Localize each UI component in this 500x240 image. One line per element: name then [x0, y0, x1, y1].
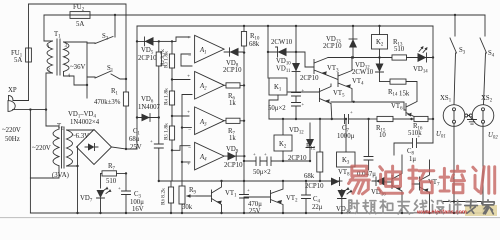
capacitor C9 0.047μ: [364, 119, 373, 170]
diode VD11: [276, 25, 319, 93]
LED VD14: [413, 46, 433, 75]
svg-text:1000μ: 1000μ: [337, 133, 355, 140]
op-amp A2: [187, 72, 224, 100]
bridge rectifier VD1-VD4: [68, 111, 112, 165]
svg-text:5A: 5A: [76, 21, 84, 28]
resistor R5: [169, 126, 174, 140]
wire K2 bottom node: [283, 160, 310, 162]
svg-text:1N4007: 1N4007: [138, 104, 161, 111]
capacitors C4 C5 50μ×2: [268, 89, 305, 119]
svg-text:+: +: [302, 103, 305, 108]
wire VT3 emitter to VT4 base: [328, 76, 338, 80]
svg-text:2CP10: 2CP10: [138, 55, 157, 62]
svg-text:68k: 68k: [304, 173, 315, 180]
resistor R7: [102, 171, 117, 176]
capacitor C2: [240, 195, 249, 199]
diode VD12a: [288, 123, 314, 162]
transistor VT1: [196, 181, 237, 214]
svg-text:−: −: [188, 93, 191, 99]
T2 primary winding: [53, 129, 59, 166]
diode VD17: [371, 177, 386, 198]
capacitor C1: [154, 118, 163, 182]
watermark gray characters: [348, 200, 461, 214]
resistor R4: [169, 91, 174, 105]
svg-text:~220V: ~220V: [2, 127, 21, 134]
wire A2 + input: [172, 79, 190, 81]
svg-text:R3 1.8k: R3 1.8k: [164, 51, 170, 68]
wire bridge + output: [112, 147, 127, 149]
resistor R8: [170, 181, 172, 187]
T2 core: [62, 127, 65, 168]
T1 primary winding: [47, 41, 53, 73]
svg-text:2CW10: 2CW10: [352, 69, 374, 76]
fuse FU2: [70, 12, 90, 19]
svg-text:68k: 68k: [249, 41, 260, 48]
svg-text:2CP10: 2CP10: [223, 67, 242, 74]
svg-text:2CP10: 2CP10: [323, 43, 342, 50]
wire left column to FU1 and plug: [28, 4, 30, 101]
resistor R12: [319, 119, 321, 152]
capacitors C6a 50μ×2: [244, 153, 283, 176]
zener VD10 2CW10: [268, 39, 296, 67]
resistor R16: [414, 116, 428, 121]
svg-text:50μ×2: 50μ×2: [253, 169, 271, 176]
watermark red characters: [349, 166, 495, 194]
wire A4 + input: [182, 161, 190, 163]
resistor R1: [123, 92, 128, 106]
svg-text:+: +: [187, 74, 190, 80]
diode VD9: [224, 146, 246, 169]
resistor R2: [158, 41, 160, 52]
wire zener node to VT3 base: [296, 52, 314, 67]
transistor VT2: [244, 180, 298, 214]
node S-block left column: [86, 42, 88, 98]
transistor VT7: [384, 155, 403, 214]
wire VT5 emitter to C7 node: [330, 104, 333, 120]
T1 core: [57, 39, 60, 75]
svg-text:100μ: 100μ: [130, 199, 144, 206]
wire inner box right edge: [432, 26, 434, 143]
socket XS2: [472, 95, 498, 213]
svg-text:1k: 1k: [229, 135, 236, 142]
wire K1 column x268: [267, 26, 269, 78]
svg-text:1N4002×4: 1N4002×4: [70, 119, 100, 126]
op-amp A3: [187, 107, 224, 135]
svg-text:−: −: [188, 128, 191, 134]
wire K2 feed y119: [269, 118, 346, 120]
svg-text:68μ: 68μ: [129, 136, 140, 143]
svg-text:R4 1.8k: R4 1.8k: [164, 88, 170, 105]
svg-text:2CP10: 2CP10: [300, 75, 319, 82]
watermark yellow highlight: [465, 205, 497, 216]
svg-text:50Hz: 50Hz: [5, 136, 20, 143]
relay K4: [337, 152, 356, 167]
svg-text:+: +: [264, 153, 267, 158]
svg-text:1μ: 1μ: [409, 156, 416, 163]
diode VD5: [136, 37, 160, 62]
svg-text:510: 510: [394, 46, 405, 53]
capacitor C7 1000μ: [332, 111, 369, 140]
wire inner box left edge: [136, 26, 138, 149]
capacitor C4b 22μ: [302, 181, 311, 213]
svg-text:10: 10: [379, 132, 386, 139]
svg-text:+: +: [187, 35, 190, 41]
fuse FU1: [26, 48, 32, 62]
svg-text:+: +: [187, 162, 190, 168]
capacitor C8 1μ: [394, 135, 433, 163]
plug XP: [8, 95, 46, 111]
svg-text:+: +: [247, 189, 250, 194]
svg-text:5A: 5A: [14, 57, 22, 64]
svg-text:~36V: ~36V: [70, 64, 85, 71]
op-amp A4: [187, 142, 224, 170]
transformer T1: [44, 31, 87, 126]
diode VD13: [323, 25, 357, 59]
transformer T2: [30, 123, 94, 179]
svg-text:16V: 16V: [132, 206, 144, 213]
svg-text:2CW10: 2CW10: [271, 39, 293, 46]
svg-text:R8 8.2k: R8 8.2k: [161, 188, 167, 205]
resistor R13: [391, 57, 393, 59]
wire summing bus x244: [243, 53, 245, 213]
svg-text:30k: 30k: [182, 204, 193, 211]
LED VD7: [80, 187, 112, 214]
watermark dark characters: [465, 200, 494, 214]
transistor VT4: [338, 56, 364, 102]
zener VD12 2CW10: [352, 58, 384, 82]
socket XS1: [436, 95, 465, 213]
svg-text:+: +: [350, 111, 353, 116]
T1 secondary winding: [64, 42, 70, 72]
wire A1 inverting feedback loop: [181, 54, 192, 66]
diode VD8: [223, 48, 245, 74]
svg-text:2CP10: 2CP10: [224, 162, 243, 169]
svg-text:470μ: 470μ: [248, 201, 262, 208]
wire node to A1 + input: [172, 37, 190, 41]
wire bottom distribution y181: [159, 180, 330, 182]
svg-text:XP: XP: [8, 87, 17, 94]
resistor R10: [243, 26, 245, 32]
resistor R15: [369, 118, 377, 120]
resistor R6: [224, 84, 226, 86]
svg-text:25V: 25V: [249, 208, 261, 215]
potentiometer R9: [181, 162, 183, 186]
ground between sockets: [465, 114, 468, 117]
svg-text:2CP10: 2CP10: [305, 183, 324, 190]
diode VD15: [330, 178, 353, 215]
svg-text:+: +: [150, 140, 153, 145]
switch S3: [450, 15, 457, 105]
relay K1: [269, 78, 287, 95]
svg-text:25V: 25V: [130, 144, 142, 151]
resistor R3: [171, 41, 173, 54]
wire inner box top rail y26: [137, 25, 433, 27]
resistor R14: [380, 81, 391, 83]
resistor R7b: [224, 120, 226, 122]
svg-text:−: −: [188, 145, 191, 151]
diode VD6: [136, 96, 161, 121]
transistor VT3: [314, 58, 339, 76]
svg-text:+: +: [302, 89, 305, 94]
transistor VT6: [391, 102, 417, 120]
transistor VT5: [288, 84, 345, 104]
wire lower link between socket columns: [442, 201, 483, 203]
switch S2: [87, 15, 115, 44]
svg-text:22μ: 22μ: [312, 204, 323, 211]
T2 secondary winding: [67, 130, 73, 166]
capacitor C3: [122, 173, 131, 213]
svg-text:1k: 1k: [229, 100, 236, 107]
node neutral junction: [29, 108, 31, 110]
wire rail2 drop to T1 primary: [43, 15, 45, 41]
wire 36V column x126: [126, 15, 137, 149]
LED VD16: [338, 190, 347, 199]
svg-text:~220V: ~220V: [32, 145, 51, 152]
wire neutral column to bottom rail: [29, 110, 31, 213]
svg-text:(3VA): (3VA): [52, 172, 69, 179]
wire A3 + input: [172, 115, 189, 117]
wire top-left outer rail: [29, 4, 127, 15]
wire VT3 collector to y57 rail: [328, 57, 433, 59]
wire bridge return column: [77, 147, 79, 213]
transistor VT8b: [412, 160, 440, 214]
svg-text:+: +: [418, 135, 421, 140]
relay K3: [372, 35, 388, 50]
wire bottom rail: [30, 212, 482, 214]
svg-text:510: 510: [106, 178, 117, 185]
relay K2: [282, 119, 284, 135]
wire VD5 node to R3 column: [159, 40, 172, 42]
switch S4: [480, 15, 487, 105]
wire A2 inverting input column: [182, 95, 192, 163]
wire emitter rail y102: [331, 102, 406, 110]
svg-text:470k±3%: 470k±3%: [94, 99, 121, 106]
svg-text:+: +: [118, 187, 121, 192]
watermark underline: [0, 217, 500, 219]
svg-text:+: +: [187, 110, 190, 116]
op-amp A1: [187, 35, 224, 63]
wire A4 - input: [172, 146, 190, 151]
svg-text:50μ×2: 50μ×2: [268, 105, 286, 112]
svg-text:www.elecfans.com: www.elecfans.com: [416, 210, 467, 216]
svg-text:R5 1.8k: R5 1.8k: [164, 123, 170, 140]
switch S1: [87, 71, 126, 79]
wire rail2 after FU2: [44, 14, 485, 16]
bridge diode glyph: [88, 143, 95, 150]
